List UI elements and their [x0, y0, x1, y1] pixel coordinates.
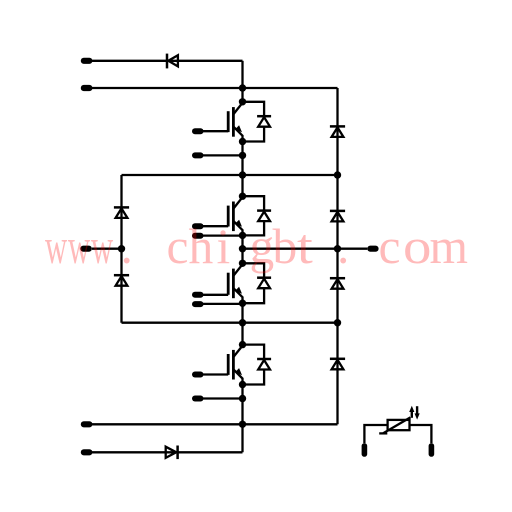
terminal Q2 aux emitter: [192, 233, 204, 239]
wire Q3 aux emitter: [203, 303, 243, 305]
node Q2 collector: [239, 193, 246, 200]
thermistor NTC R1: [364, 417, 431, 443]
terminal AC out: [367, 246, 378, 252]
terminal Q3 aux emitter: [192, 301, 204, 307]
terminal P2: [81, 85, 93, 91]
wire main rail bottom: [241, 385, 243, 453]
wire clamp top row: [122, 174, 338, 176]
node Q1 collector: [239, 98, 246, 105]
diode Q3 freewheel: [243, 263, 272, 303]
node Q4 emitter: [239, 381, 246, 388]
wire neutral stub: [92, 248, 122, 250]
diode rail D9: [330, 278, 345, 289]
node diode rail mid junction: [334, 245, 341, 252]
node Q4 collector: [239, 341, 246, 348]
terminal N1: [81, 421, 93, 427]
IGBT Q1: [203, 103, 243, 142]
diode rail D10: [330, 359, 345, 370]
node Q4 aux emitter: [239, 395, 246, 402]
node Q1 aux emitter: [239, 152, 246, 159]
node clamp top junction: [239, 171, 246, 178]
terminal Q4 aux emitter: [192, 396, 204, 402]
wire main rail top segment: [241, 61, 243, 102]
terminal NTC left: [362, 443, 368, 456]
node diode rail upper junction: [334, 171, 341, 178]
node Q3 emitter: [239, 300, 246, 307]
NTC temperature arrows: [409, 406, 420, 420]
diode rail D7: [330, 126, 345, 136]
wire main rail mid3: [241, 303, 243, 344]
terminal N neutral: [80, 246, 92, 252]
wire second row to right diode rail: [92, 87, 338, 89]
diode D_bot cathode-right: [166, 446, 178, 460]
node Q3 collector: [239, 260, 246, 267]
wire AC output row: [243, 248, 368, 250]
node clamp bottom junction: [239, 319, 246, 326]
wire Q1 aux emitter: [203, 154, 243, 156]
terminal Q1 aux emitter: [192, 152, 204, 158]
diode clamp D6: [114, 275, 129, 286]
terminal P1: [81, 58, 93, 64]
IGBT Q4: [203, 346, 243, 385]
IGBT Q3: [203, 264, 243, 303]
wire bottom DC- row: [92, 423, 338, 425]
node diode rail lower junction: [334, 319, 341, 326]
wire right diode rail: [336, 88, 338, 424]
node Q1 emitter: [239, 138, 246, 145]
diode Q2 freewheel: [243, 196, 272, 235]
terminal NTC right: [429, 443, 435, 456]
wire Q4 aux emitter: [203, 397, 243, 399]
wire top DC+ row: [92, 60, 243, 62]
diode clamp D5: [114, 207, 129, 218]
diode rail D8: [330, 211, 345, 222]
terminal N2: [81, 449, 93, 455]
terminal Q1 gate: [192, 128, 204, 134]
wire main rail mid1: [241, 142, 243, 197]
wire main rail mid2: [241, 235, 243, 263]
node neutral point: [118, 245, 125, 252]
terminal Q4 gate: [192, 372, 204, 378]
diode D_top cathode-left: [167, 54, 178, 69]
terminal Q3 gate: [192, 292, 204, 298]
node AC output junction: [239, 245, 246, 252]
node rail-P2 junction: [239, 84, 246, 91]
wire clamp bottom row: [122, 322, 338, 324]
diode Q1 freewheel: [243, 102, 272, 142]
IGBT Q2: [203, 197, 243, 235]
wire Q2 aux emitter: [203, 234, 243, 236]
terminal Q2 gate: [192, 223, 204, 229]
wire lowest row: [92, 451, 243, 453]
diode Q4 freewheel: [243, 345, 272, 385]
wire left clamp rail: [120, 175, 122, 323]
node rail-N1 junction: [239, 421, 246, 428]
node Q2 emitter: [239, 232, 246, 239]
